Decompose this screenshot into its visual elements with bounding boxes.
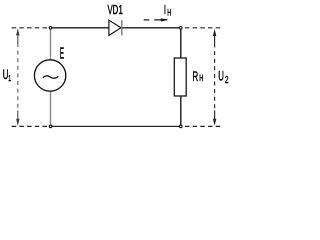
svg-text:R: R: [193, 70, 199, 85]
IH current arrow shaft: [154, 19, 167, 21]
wire source top lead: [50, 29, 52, 60]
source E circle: [34, 60, 65, 91]
U1 arrow down stub: [17, 111, 19, 121]
wire bottom: [52, 125, 180, 127]
node top-right junction: [180, 27, 183, 30]
U1 arrow down: [16, 119, 19, 126]
IH current arrowhead: [161, 18, 169, 21]
IH current arrow dash: [144, 19, 150, 21]
svg-text:2: 2: [225, 74, 229, 86]
label IH: [164, 4, 171, 18]
dashed leader top-right: [185, 27, 222, 29]
svg-text:D: D: [113, 4, 119, 17]
svg-text:V: V: [108, 4, 113, 17]
resistor RH box: [174, 58, 186, 96]
svg-text:Н: Н: [167, 7, 171, 18]
node top-left junction: [49, 27, 52, 30]
wire top-right segment: [122, 27, 179, 29]
svg-text:E: E: [60, 44, 64, 62]
label RH: [193, 70, 204, 85]
dashed leader top-left: [9, 27, 48, 29]
U2 arrow down stub: [214, 111, 216, 120]
U1 dashed measure line: [17, 43, 19, 111]
U1 arrow up stub: [17, 34, 19, 44]
svg-text:Н: Н: [199, 73, 203, 84]
wire source bottom lead: [50, 91, 52, 125]
label U1: [3, 68, 11, 83]
U1 arrow up: [16, 28, 19, 35]
svg-text:1: 1: [119, 4, 123, 17]
wire resistor top lead: [180, 29, 182, 58]
dashed leader bottom-right: [185, 125, 222, 127]
U2 arrow down: [213, 119, 216, 126]
svg-text:U: U: [3, 68, 9, 83]
wire top-left segment: [52, 27, 109, 29]
wire resistor bottom lead: [180, 96, 182, 125]
svg-text:U: U: [218, 69, 224, 84]
U2 arrow up stub: [214, 35, 216, 45]
label U2: [218, 69, 228, 85]
U2 arrow up: [213, 29, 216, 36]
diode VD1 triangle: [109, 20, 121, 35]
svg-text:I: I: [164, 4, 166, 17]
svg-text:1: 1: [8, 75, 11, 83]
diode VD1 cathode bar: [121, 20, 123, 35]
source E sine symbol: [43, 76, 58, 78]
node bottom-right junction: [180, 125, 183, 128]
node bottom-left junction: [49, 125, 52, 128]
U2 dashed measure line: [214, 44, 216, 112]
label VD1: [108, 4, 123, 17]
dashed leader bottom-left: [9, 125, 48, 127]
